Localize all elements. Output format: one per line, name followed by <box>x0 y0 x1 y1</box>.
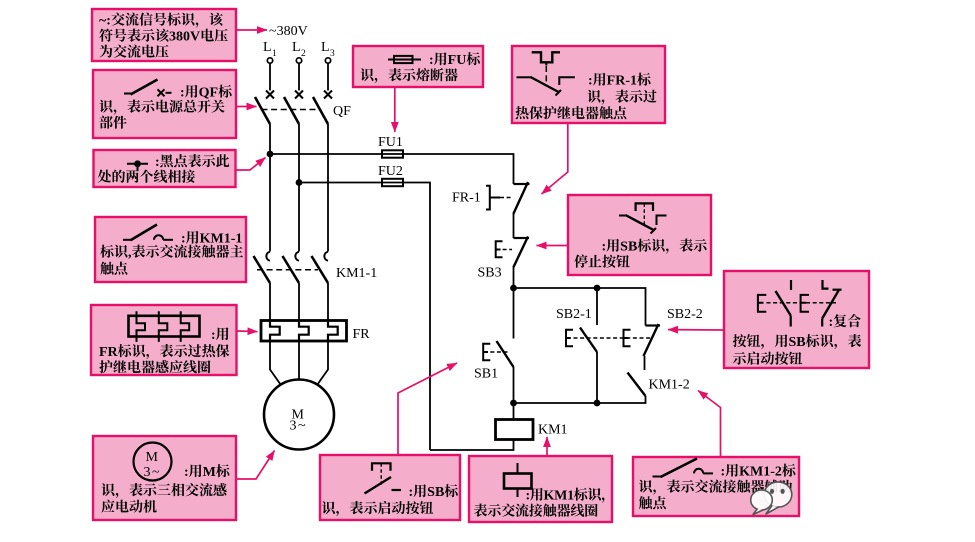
wire SB3 to node A <box>513 268 515 289</box>
box8 icon thermal contact <box>517 52 575 95</box>
svg-text:SB2-2: SB2-2 <box>667 307 703 322</box>
svg-text:停止按钮: 停止按钮 <box>574 252 630 272</box>
contactor KM1-1 linkage dashed <box>257 269 318 271</box>
button SB1 dashed link <box>484 351 508 353</box>
svg-text:2: 2 <box>301 49 306 59</box>
wire L2 junction to FU2 <box>299 182 403 184</box>
wire FR-1 to SB3 <box>513 214 515 238</box>
motor M circle <box>264 380 334 450</box>
contact FR-1 fixed tick <box>514 183 530 185</box>
contactor KM1-1 arc pole 2 <box>295 252 299 261</box>
svg-text:KM1-1: KM1-1 <box>336 266 377 281</box>
node L3 <box>321 40 335 59</box>
wire KM1-1 to FR pole 2 <box>298 283 300 322</box>
contactor KM1-1 arc pole 1 <box>266 252 270 261</box>
svg-text:FR-1: FR-1 <box>452 191 481 206</box>
button SB3 dashed link <box>496 249 512 251</box>
svg-text:SB3: SB3 <box>478 266 502 281</box>
wire node B to SB2-1 <box>596 288 598 325</box>
QF fixed contact X pole 3 <box>324 91 332 99</box>
callout box SB-stop note <box>568 195 711 275</box>
svg-text:FR: FR <box>353 327 371 342</box>
box10 icon compound button <box>758 280 842 327</box>
box3 icon junction <box>127 160 148 170</box>
button SB1 actuator bracket <box>483 344 490 361</box>
terminal L2 <box>296 58 301 63</box>
arrow box7 to FU1 <box>394 87 396 132</box>
arrow box13 to KM1-2 <box>698 391 721 458</box>
callout box SB-start note <box>320 455 460 520</box>
arrow box1 to ~380V <box>236 29 267 31</box>
callout box KM1-2 note <box>633 457 799 516</box>
wire coil KM1 to return <box>430 440 514 451</box>
thermal relay FR heater element 1 <box>270 322 280 341</box>
callout box FR note <box>91 305 237 375</box>
junction node on L2 <box>296 179 303 186</box>
svg-text:为交流电压: 为交流电压 <box>99 42 169 62</box>
wire KM1-1 to FR pole 3 <box>327 283 329 322</box>
callout box M note <box>93 436 236 520</box>
box13 icon aux contact <box>653 459 714 478</box>
wire L1 junction to FU1 <box>270 153 403 155</box>
svg-text:L: L <box>263 40 272 55</box>
QF fixed contact X pole 1 <box>266 91 274 99</box>
thermal relay FR box <box>261 321 347 342</box>
button SB2-2 actuator bracket <box>624 330 631 347</box>
junction node bus left <box>510 400 517 407</box>
button SB3 blade <box>513 237 528 268</box>
svg-text:触点: 触点 <box>639 493 668 513</box>
svg-text:FU1: FU1 <box>378 135 403 150</box>
svg-text:部件: 部件 <box>99 113 127 133</box>
QF fixed contact X pole 2 <box>295 91 303 99</box>
arrow box8 to FR-1 contact <box>542 123 568 194</box>
arrow box3 to junction <box>236 158 266 171</box>
button SB1 blade <box>497 341 514 367</box>
callout box AC-signal note <box>92 9 236 61</box>
box5 icon thermal relay <box>129 311 200 342</box>
svg-text:QF: QF <box>333 104 351 119</box>
svg-text:M: M <box>146 450 159 465</box>
wire L3 to QF <box>327 63 329 90</box>
svg-text:示启动按钮: 示启动按钮 <box>733 349 803 369</box>
compound button dashed link SB2-1 to SB2-2 <box>574 337 653 339</box>
box2 icon breaker <box>124 80 172 97</box>
callout box QF note <box>93 70 236 138</box>
arrow box6 to motor <box>236 451 275 480</box>
svg-text:处的两个线相接: 处的两个线相接 <box>98 167 197 187</box>
wire node A to SB1 <box>513 288 515 339</box>
contact KM1-2 blade <box>628 373 646 397</box>
fuse FU1 <box>382 150 403 157</box>
junction node A <box>510 285 517 292</box>
svg-text:SB1: SB1 <box>474 367 498 382</box>
callout box KM1-1 note <box>95 217 246 282</box>
contact FR-1 blade <box>513 182 528 214</box>
svg-text:护继电器感应线圈: 护继电器感应线圈 <box>99 357 211 377</box>
relay FR-1 actuator symbol <box>486 186 500 210</box>
coil KM1 <box>496 420 534 440</box>
terminal L3 <box>325 58 330 63</box>
callout box FU note <box>353 46 483 87</box>
svg-text:KM1: KM1 <box>538 423 568 438</box>
thermal relay FR heater element 3 <box>328 322 338 341</box>
button SB2-2 fixed tick <box>646 324 661 326</box>
wire QF to KM1-1 pole 2 <box>298 124 300 252</box>
arrow box5 to FR <box>237 330 258 333</box>
junction node B top <box>594 285 601 292</box>
breaker QF blade pole 2 <box>284 97 299 124</box>
svg-text:识，表示启动按钮: 识，表示启动按钮 <box>322 498 434 518</box>
arrow box9 to SB3 <box>537 245 569 247</box>
wire SB2-2 to KM1-2 <box>644 356 646 370</box>
callout box compound-button note <box>724 271 869 368</box>
svg-text:1: 1 <box>272 49 277 59</box>
svg-text:~380V: ~380V <box>269 24 308 39</box>
terminal L1 <box>267 58 272 63</box>
wire QF to KM1-1 pole 1 <box>269 124 271 252</box>
svg-text:SB2-1: SB2-1 <box>556 307 592 322</box>
wire bus to coil KM1 <box>513 403 515 420</box>
wire L2 to QF <box>298 63 300 90</box>
arrow box10 to SB2-2 <box>668 329 724 331</box>
svg-text:识，表示熔断器: 识，表示熔断器 <box>360 65 458 85</box>
wire node A to SB2-2 branch <box>514 288 646 326</box>
button SB3 actuator bracket <box>496 241 503 257</box>
contactor KM1-1 blade pole 2 <box>283 256 300 283</box>
breaker QF linkage dashed <box>262 109 320 111</box>
contactor KM1-1 arc pole 3 <box>324 252 328 261</box>
junction node bus mid <box>594 400 601 407</box>
contactor KM1-1 blade pole 3 <box>312 256 329 283</box>
svg-text:3~: 3~ <box>290 419 308 434</box>
watermark wechat icon <box>751 482 792 515</box>
wire SB2-1 to bus <box>596 352 598 403</box>
svg-text:3~: 3~ <box>144 465 162 480</box>
box4 icon contactor contact <box>123 225 173 241</box>
callout box FR-1 note <box>512 46 665 123</box>
svg-text:3: 3 <box>330 49 335 59</box>
button SB2-1 blade <box>580 328 597 353</box>
wire QF to KM1-1 pole 3 <box>327 124 329 252</box>
svg-text:L: L <box>292 40 301 55</box>
button SB2-1 actuator bracket <box>566 330 573 347</box>
arrow box2 to QF <box>236 106 257 108</box>
svg-text::复合: :复合 <box>829 311 862 331</box>
wire FU1 to control branch corner <box>403 154 514 184</box>
wire FR to motor mid <box>298 341 300 379</box>
box7 icon fuse <box>388 56 421 63</box>
svg-text:KM1-2: KM1-2 <box>649 378 690 393</box>
relay FR-1 dashed link <box>500 197 512 199</box>
node L2 <box>292 40 306 59</box>
wire KM1-1 to FR pole 1 <box>269 283 271 322</box>
node L1 <box>263 40 277 59</box>
svg-text:FU2: FU2 <box>378 164 403 179</box>
wire FR to motor left <box>270 341 282 386</box>
svg-text:应电动机: 应电动机 <box>101 497 157 517</box>
wire KM1-2 to bus corner <box>514 396 646 403</box>
button SB2-2 blade <box>644 324 659 356</box>
svg-text:触点: 触点 <box>100 259 129 279</box>
wire SB1 to bus <box>513 367 515 403</box>
arrow box12 to KM1 coil <box>546 437 548 456</box>
callout box junction-dot note <box>94 150 236 187</box>
breaker QF blade pole 1 <box>255 97 270 124</box>
box9 icon NC pushbutton <box>619 203 667 233</box>
box6 icon motor <box>134 443 172 481</box>
svg-text:表示交流接触器线圈: 表示交流接触器线圈 <box>474 501 599 521</box>
wire FU2 to return corner down <box>403 183 430 451</box>
arrow box11 to SB1 <box>398 363 457 455</box>
svg-text:热保护继电器触点: 热保护继电器触点 <box>515 103 628 123</box>
junction node on L1 <box>267 151 274 158</box>
svg-text:L: L <box>321 40 330 55</box>
button SB3 fixed tick <box>514 237 530 239</box>
box11 icon NO pushbutton <box>365 463 402 493</box>
callout box KM1-coil note <box>469 456 612 522</box>
wire FR to motor right <box>317 341 329 386</box>
contactor KM1-1 blade pole 1 <box>254 256 271 283</box>
thermal relay FR heater element 2 <box>299 322 309 341</box>
breaker QF blade pole 3 <box>313 97 328 124</box>
box12 icon coil <box>504 463 532 497</box>
fuse FU2 <box>382 179 403 186</box>
wire L1 to QF <box>269 63 271 90</box>
svg-text::用M标: :用M标 <box>184 461 231 481</box>
